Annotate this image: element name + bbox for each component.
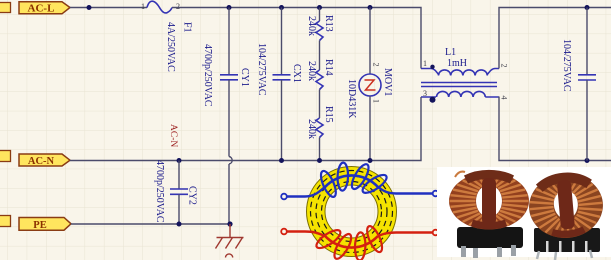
node: CX1 bottom <box>279 158 284 163</box>
ground earth symbol <box>216 224 244 258</box>
svg-text:PE: PE <box>33 220 46 231</box>
port AC-N edge tab <box>0 151 11 162</box>
node: R13 top <box>317 5 322 10</box>
node: MOV1 top <box>368 5 373 10</box>
wire: L rail right segment <box>499 8 611 69</box>
svg-text:CY2: CY2 <box>187 186 198 205</box>
yellow toroid core <box>307 167 397 257</box>
node: junction on L rail <box>87 5 92 10</box>
red lead right <box>378 233 433 237</box>
node: R15 bottom <box>317 158 322 163</box>
port PE edge tab <box>0 216 11 227</box>
wire: N rail left <box>70 97 421 161</box>
red winding loops <box>314 224 385 260</box>
inductor L1 common-mode choke <box>421 65 499 103</box>
node: CY2 bottom <box>177 222 182 227</box>
svg-text:AC-N: AC-N <box>28 156 55 167</box>
node: earth junction <box>227 221 232 226</box>
svg-text:CX1: CX1 <box>291 64 302 83</box>
L1 core <box>421 83 497 87</box>
resistor R15 <box>316 118 323 138</box>
red terminal right <box>433 230 439 236</box>
svg-text:3: 3 <box>423 89 427 98</box>
blue lead left <box>287 187 326 197</box>
svg-text:R14: R14 <box>323 59 334 76</box>
wire: fuse to choke, L rail <box>172 8 421 69</box>
red winding arc <box>325 236 378 247</box>
svg-text:1: 1 <box>372 99 381 103</box>
wire: CY1 to PE rail <box>228 164 230 224</box>
varistor MOV1 <box>359 8 381 161</box>
svg-text:1: 1 <box>423 59 427 68</box>
node: CY2 top <box>177 158 182 163</box>
L1 top winding <box>421 69 499 76</box>
capacitor CX2 right <box>578 8 596 161</box>
fuse F1 <box>147 1 172 13</box>
svg-text:AC-L: AC-L <box>28 2 55 14</box>
port AC-L edge tab <box>0 3 11 13</box>
port AC-L <box>19 2 70 15</box>
dashed core lines <box>322 182 382 242</box>
blue lead right <box>378 187 433 194</box>
svg-text:104/275VAC: 104/275VAC <box>256 43 267 96</box>
svg-text:4: 4 <box>500 96 509 100</box>
svg-text:1: 1 <box>141 2 145 11</box>
svg-text:240k: 240k <box>306 119 317 139</box>
svg-text:104/275VAC: 104/275VAC <box>561 39 572 92</box>
node: MOV1 bottom <box>368 158 373 163</box>
port PE <box>19 218 71 231</box>
blue terminal left <box>281 194 287 200</box>
svg-text:1mH: 1mH <box>447 58 467 69</box>
svg-text:4700p/250VAC: 4700p/250VAC <box>154 160 165 223</box>
svg-text:R13: R13 <box>323 15 334 32</box>
red terminal left <box>281 229 287 235</box>
blue terminal right <box>433 191 439 197</box>
wire: R14 to R15 <box>319 90 321 119</box>
wire: R15 to N rail <box>319 138 321 161</box>
polarity dot top <box>430 65 434 69</box>
svg-text:2: 2 <box>176 2 180 11</box>
node: CX1 top <box>279 5 284 10</box>
svg-text:AC-N: AC-N <box>168 124 178 147</box>
wire hop: CY1 earth wire over N rail <box>229 157 232 165</box>
blue winding loops <box>318 162 389 199</box>
svg-text:L1: L1 <box>445 47 456 58</box>
wire: R13 to R14 <box>319 41 321 71</box>
svg-text:2: 2 <box>500 64 509 68</box>
wire: PE rail <box>71 223 230 225</box>
svg-text:MOV1: MOV1 <box>382 68 393 96</box>
capacitor CY1 <box>220 8 238 157</box>
svg-text:10D431K: 10D431K <box>346 79 357 119</box>
svg-text:F1: F1 <box>182 22 193 33</box>
capacitor CX1 <box>273 8 291 161</box>
svg-text:R15: R15 <box>323 106 334 123</box>
L1 bottom winding <box>421 91 499 97</box>
svg-text:4700p/250VAC: 4700p/250VAC <box>202 44 213 107</box>
svg-text:240k: 240k <box>306 61 317 81</box>
polarity dot bottom <box>430 97 436 103</box>
red lead left <box>287 232 326 237</box>
capacitor CY2 <box>170 161 188 225</box>
svg-text:240k: 240k <box>306 16 317 36</box>
resistor R14 <box>316 70 323 90</box>
toroid winding illustration <box>281 162 438 260</box>
resistor R13 <box>316 8 323 41</box>
photo background <box>437 167 611 257</box>
wire: AC-L to fuse <box>70 7 147 9</box>
blue winding arc <box>325 175 378 186</box>
port AC-N <box>19 154 70 167</box>
node: CY1 top <box>227 5 232 10</box>
svg-text:4A/250VAC: 4A/250VAC <box>165 22 176 72</box>
node: right cap top <box>585 5 590 10</box>
wire: N rail right segment <box>499 97 611 161</box>
node: right cap bottom <box>585 158 590 163</box>
photo: toroid choke left <box>449 172 529 258</box>
svg-text:CY1: CY1 <box>239 68 250 87</box>
svg-text:2: 2 <box>372 63 381 67</box>
photo: toroid choke right <box>526 171 605 260</box>
